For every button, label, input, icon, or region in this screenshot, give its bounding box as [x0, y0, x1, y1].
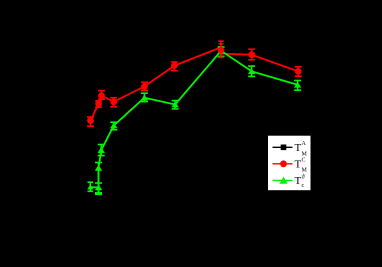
red peak point overlay (red drawn over green at summit): [218, 41, 224, 57]
red errorbar 3: [98, 91, 105, 100]
red errorbar 7: [248, 49, 255, 60]
red series error bars: [87, 49, 302, 126]
green errorbar 6: [141, 93, 148, 101]
red errorbar 2: [95, 101, 102, 107]
green errorbar 9: [248, 66, 255, 76]
green errorbar 8: [218, 47, 225, 56]
green errorbar 2: [95, 183, 102, 194]
red series circle markers: [87, 51, 302, 124]
svg-text:M: M: [302, 168, 308, 174]
green series T_c connecting line: [90, 51, 297, 188]
svg-text:c: c: [302, 183, 305, 189]
svg-text:T: T: [295, 159, 302, 171]
green errorbar 10: [294, 81, 301, 91]
green errorbar 1 (small left): [88, 182, 94, 191]
svg-text:A: A: [302, 141, 307, 147]
svg-text:M: M: [302, 151, 308, 157]
small triangle 1: [87, 184, 93, 189]
svg-text:T: T: [295, 142, 302, 154]
legend entry 1: black square series T_M^A: [273, 141, 308, 157]
legend entry 3: green triangle series T_c: [273, 174, 305, 189]
svg-text:C: C: [302, 158, 306, 164]
green series error bars: [88, 47, 302, 194]
red errorbar 4: [110, 98, 117, 107]
red errorbar 8: [295, 67, 302, 76]
green errorbar 7: [172, 101, 179, 109]
svg-text:T: T: [295, 175, 302, 187]
red peak circle marker: [218, 47, 225, 54]
legend entry 2: red circle series T_M^C: [273, 158, 308, 174]
red errorbar 5: [141, 82, 148, 90]
green series triangle markers: [87, 48, 301, 191]
red errorbar 6: [171, 62, 178, 71]
red series T_M^C connecting line: [91, 47, 299, 120]
red errorbar 1: [87, 117, 94, 126]
green errorbar 4: [98, 145, 105, 156]
green errorbar 5: [110, 122, 117, 130]
svg-text:ϑ: ϑ: [302, 174, 305, 180]
legend box: [268, 135, 312, 191]
green errorbar 3: [95, 163, 102, 193]
